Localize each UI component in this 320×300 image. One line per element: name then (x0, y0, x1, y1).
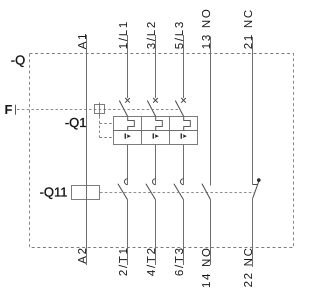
pole 3 thermal overload element (184, 117, 191, 131)
svg-text:A1: A1 (77, 32, 89, 49)
svg-text:2/T1: 2/T1 (118, 246, 130, 276)
svg-text:14 NO: 14 NO (201, 246, 213, 288)
pole 2 thermal overload element (156, 117, 163, 131)
wire 4/T2 terminal (155, 200, 157, 265)
svg-text:A2: A2 (77, 246, 89, 263)
wire 2/T1 terminal (127, 200, 129, 265)
svg-text:22 NC: 22 NC (243, 246, 255, 287)
pole 1 fixed contact x (125, 98, 130, 103)
trip mechanism stem dashed (99, 116, 101, 138)
trip linkage to thermal row (100, 123, 114, 125)
wire pole 3 box to main contact (183, 145, 185, 185)
pole 2 magnetic trip label I> (153, 133, 159, 138)
svg-text:13 NO: 13 NO (201, 7, 213, 49)
wire 13 NO terminal (210, 37, 212, 186)
NO contact blade (202, 184, 211, 200)
pole 1 magnetic trip label I> (125, 133, 131, 138)
auxiliary switch -Q11 block (72, 186, 100, 200)
svg-text:6/T3: 6/T3 (174, 246, 186, 276)
svg-text:F: F (5, 102, 13, 117)
pole 1 main contact blade (118, 184, 128, 200)
trip mechanism stem solid (99, 103, 101, 116)
wire 6/T3 terminal (183, 200, 185, 265)
wire 22 NC terminal (252, 199, 254, 268)
pole 3 breaker blade (175, 101, 183, 117)
NC contact tip dot (257, 178, 261, 182)
wire pole 1 box to main contact (127, 145, 129, 185)
wire A1-A2 coil path (86, 35, 88, 265)
svg-text:5/L3: 5/L3 (174, 20, 186, 49)
NC contact seat foot (253, 184, 258, 186)
wire pole 2 box to main contact (155, 145, 157, 185)
pole 2 fixed contact x (153, 98, 158, 103)
pole 2 breaker blade (147, 101, 155, 117)
pole 3 magnetic trip label I> (181, 133, 187, 138)
release F linkage dashed (17, 108, 179, 110)
pole 3 fixed contact x (181, 98, 186, 103)
pole 2 main contact seat arc (153, 179, 156, 185)
pole 2 main contact blade (146, 184, 156, 200)
svg-text:-Q: -Q (11, 52, 25, 67)
auxiliary linkage dashed (100, 191, 254, 193)
svg-text:4/T2: 4/T2 (146, 246, 158, 276)
svg-text:-Q1: -Q1 (65, 115, 87, 130)
wire 3/L2 terminal (155, 35, 157, 98)
svg-text:3/L2: 3/L2 (146, 20, 158, 49)
wire 14 NO terminal (210, 200, 212, 265)
trip mechanism square (95, 105, 105, 114)
NC contact blade (253, 181, 259, 198)
breaker -Q1 trip unit box (114, 117, 198, 145)
wire 21 NC terminal (252, 37, 254, 185)
svg-text:21 NC: 21 NC (243, 8, 255, 49)
pole 1 main contact seat arc (125, 179, 128, 185)
pole 3 main contact blade (174, 184, 184, 200)
pole 3 main contact seat arc (181, 179, 184, 185)
trip linkage to magnetic row (100, 137, 114, 139)
pole 1 thermal overload element (128, 117, 135, 131)
pole 1 breaker blade (119, 101, 127, 117)
svg-text:-Q11: -Q11 (40, 185, 68, 200)
svg-text:1/L1: 1/L1 (118, 20, 130, 49)
wire 1/L1 terminal (127, 35, 129, 98)
release F tick (15, 105, 17, 115)
wire 5/L3 terminal (183, 35, 185, 98)
enclosure -Q dashed boundary (30, 54, 294, 248)
